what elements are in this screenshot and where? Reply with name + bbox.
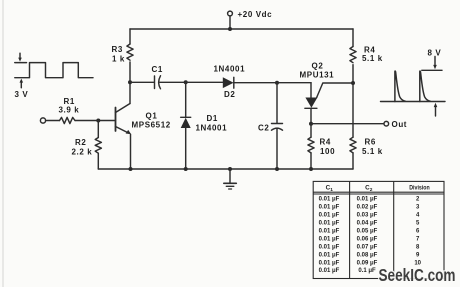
svg-text:0.01 μF: 0.01 μF xyxy=(319,252,340,258)
wire C2 to bottom rail xyxy=(276,129,278,169)
svg-text:0.07 μF: 0.07 μF xyxy=(357,244,378,250)
svg-text:Out: Out xyxy=(392,120,408,129)
wire Q1 emitter down xyxy=(130,134,132,169)
wire node to C1 xyxy=(130,81,154,83)
wire C1 to D2 node xyxy=(160,81,186,83)
wire C2 top xyxy=(276,83,278,124)
node C2 top xyxy=(275,81,279,85)
resistor R4 100 xyxy=(308,137,314,153)
wire node to D2 xyxy=(186,81,223,83)
svg-text:2: 2 xyxy=(416,197,420,203)
svg-text:0.01 μF: 0.01 μF xyxy=(319,197,340,203)
svg-text:R2: R2 xyxy=(75,138,86,147)
svg-text:3: 3 xyxy=(416,205,420,211)
svg-text:1N4001: 1N4001 xyxy=(214,65,246,74)
table col2 values xyxy=(357,197,378,275)
wire collector up to node xyxy=(129,82,131,103)
input square wave xyxy=(15,63,93,78)
wire R4b top xyxy=(310,124,312,138)
svg-text:5.1 k: 5.1 k xyxy=(362,54,383,63)
transistor Q1 emitter with arrow xyxy=(116,127,132,135)
peak level tick xyxy=(422,69,442,71)
output spike 1 xyxy=(395,71,405,101)
svg-text:MPS6512: MPS6512 xyxy=(132,121,171,130)
arrow up to baseline xyxy=(20,79,24,88)
svg-text:5.1 k: 5.1 k xyxy=(362,147,383,156)
svg-text:Q2: Q2 xyxy=(312,62,324,71)
transistor Q2 anode wire xyxy=(310,83,312,98)
node +20 on rail xyxy=(228,27,232,31)
svg-text:MPU131: MPU131 xyxy=(300,71,335,80)
wire bottom rail xyxy=(98,168,353,170)
wire R4b bottom xyxy=(310,153,312,169)
svg-text:0.01 μF: 0.01 μF xyxy=(319,260,340,266)
wire R4a to R6 xyxy=(352,65,354,138)
svg-text:0.01 μF: 0.01 μF xyxy=(319,244,340,250)
svg-text:3.9 k: 3.9 k xyxy=(59,106,80,115)
wire node down to D1 xyxy=(185,82,187,117)
node D1 rail xyxy=(184,167,188,171)
wire input to R1 xyxy=(46,120,60,122)
svg-text:0.01 μF: 0.01 μF xyxy=(319,205,340,211)
transistor Q2 gate wire xyxy=(317,83,353,98)
svg-text:R4: R4 xyxy=(320,138,331,147)
capacitor C2 xyxy=(272,124,283,131)
transistor Q2 PUT xyxy=(305,98,318,109)
svg-text:0.01 μF: 0.01 μF xyxy=(319,228,340,234)
wire R2 to bottom rail xyxy=(97,153,99,169)
svg-text:8: 8 xyxy=(416,244,420,250)
watermark SeekIC.com xyxy=(379,265,456,285)
svg-text:Q1: Q1 xyxy=(146,112,158,121)
svg-text:0.03 μF: 0.03 μF xyxy=(357,213,378,219)
svg-text:0.01 μF: 0.01 μF xyxy=(319,221,340,227)
svg-text:9: 9 xyxy=(416,252,420,258)
node emitter rail xyxy=(129,167,133,171)
svg-text:0.1 μF: 0.1 μF xyxy=(358,268,376,274)
capacitor C1 xyxy=(155,76,161,89)
svg-text:3 V: 3 V xyxy=(15,90,29,99)
svg-text:4: 4 xyxy=(416,213,420,219)
svg-text:D2: D2 xyxy=(224,90,235,99)
resistor R6 xyxy=(350,137,356,153)
resistor R3 xyxy=(127,44,133,60)
node Q2 cathode / out xyxy=(309,122,313,126)
svg-text:0.01 μF: 0.01 μF xyxy=(319,236,340,242)
svg-text:0.06 μF: 0.06 μF xyxy=(357,236,378,242)
node ground rail xyxy=(228,167,232,171)
resistor R1 xyxy=(60,117,76,123)
wire D2 to Q2 anode xyxy=(234,82,311,84)
wire R3 top xyxy=(129,29,131,44)
arrow down to peak xyxy=(433,57,437,70)
resistor R4 5.1k xyxy=(350,47,356,63)
svg-text:SeekIC.com: SeekIC.com xyxy=(379,265,456,285)
svg-text:0.01 μF: 0.01 μF xyxy=(319,213,340,219)
node gate junction xyxy=(351,81,355,85)
svg-text:100: 100 xyxy=(320,147,335,156)
output waveform baseline xyxy=(381,101,446,103)
table C1 C2 Division xyxy=(313,181,444,278)
arrow down to top level xyxy=(18,53,22,61)
wire R3 bottom xyxy=(129,62,131,82)
svg-text:0.08 μF: 0.08 μF xyxy=(357,252,378,258)
output spike 2 xyxy=(420,71,430,101)
svg-text:D1: D1 xyxy=(207,114,218,123)
transistor Q1 collector xyxy=(116,104,131,113)
wire R4a column top xyxy=(352,29,354,47)
svg-text:C2: C2 xyxy=(258,124,269,133)
node collector/C1/R3 xyxy=(128,80,132,84)
resistor R2 xyxy=(95,138,101,154)
input terminal xyxy=(40,118,45,123)
svg-text:0.02 μF: 0.02 μF xyxy=(357,205,378,211)
diode D2 xyxy=(223,77,234,88)
wire node to R2 xyxy=(97,121,99,138)
svg-text:0.05 μF: 0.05 μF xyxy=(357,228,378,234)
diode D1 xyxy=(181,117,191,128)
wire R6 bottom xyxy=(352,153,354,169)
svg-text:1N4001: 1N4001 xyxy=(196,124,228,133)
svg-text:1 k: 1 k xyxy=(112,55,125,64)
svg-text:0.01 μF: 0.01 μF xyxy=(319,268,340,274)
table col3 values xyxy=(414,197,421,267)
transistor Q1 base bar xyxy=(115,108,117,132)
amplitude tick top xyxy=(15,62,27,64)
wire Q2 cathode xyxy=(310,108,312,123)
arrow up to baseline xyxy=(434,103,438,116)
svg-text:2.2 k: 2.2 k xyxy=(72,148,93,157)
terminal +20 Vdc xyxy=(228,11,233,29)
wire R1 to Q1 base xyxy=(75,120,116,122)
svg-text:0.09 μF: 0.09 μF xyxy=(357,260,378,266)
node D1 top xyxy=(184,80,188,84)
wire D1 to bottom rail xyxy=(185,128,187,169)
svg-text:7: 7 xyxy=(416,236,420,242)
svg-text:R6: R6 xyxy=(365,138,376,147)
svg-text:5: 5 xyxy=(416,221,420,227)
node R4b rail xyxy=(309,167,313,171)
node C2 rail xyxy=(275,167,279,171)
svg-text:C1: C1 xyxy=(152,65,163,74)
wire out line xyxy=(311,123,384,125)
svg-text:0.04 μF: 0.04 μF xyxy=(357,221,378,227)
svg-text:+20 Vdc: +20 Vdc xyxy=(238,10,273,19)
wire top rail xyxy=(130,28,353,30)
svg-text:8 V: 8 V xyxy=(428,49,442,58)
svg-text:Division: Division xyxy=(409,185,430,192)
node base junction xyxy=(96,119,100,123)
terminal Out xyxy=(384,121,389,126)
svg-text:0.01 μF: 0.01 μF xyxy=(357,197,378,203)
svg-text:R3: R3 xyxy=(112,45,123,54)
svg-text:6: 6 xyxy=(416,228,420,234)
table col1 values xyxy=(319,197,340,275)
ground xyxy=(224,169,237,189)
